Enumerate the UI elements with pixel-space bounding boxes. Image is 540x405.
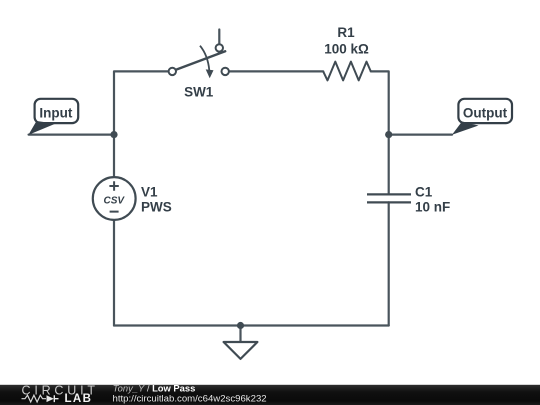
svg-text:10 nF: 10 nF <box>415 200 450 215</box>
wire top-left corner: from switch left contact to left vertical rail <box>114 71 169 176</box>
motion arc <box>200 46 209 71</box>
wire ground stub <box>239 326 241 343</box>
svg-text:C1: C1 <box>415 185 433 200</box>
node input junction <box>110 131 117 138</box>
flag Output <box>452 99 512 135</box>
wire switch right contact to resistor <box>229 70 323 72</box>
svg-text:R1: R1 <box>337 25 355 40</box>
capacitor C1 <box>367 194 411 202</box>
svg-text:V1: V1 <box>141 185 158 200</box>
node ground junction <box>237 322 244 329</box>
wire output node to output flag tail <box>389 134 452 136</box>
svg-text:PWS: PWS <box>141 200 172 215</box>
wire V1 bottom to bottom rail <box>113 220 115 326</box>
wire capacitor bottom to bottom rail <box>388 202 390 325</box>
flag Input <box>28 99 78 135</box>
wire bottom rail <box>114 324 389 326</box>
wire switch top stub <box>218 30 220 45</box>
CircuitLab logo resistor zigzag <box>22 395 47 402</box>
CircuitLab logo diode <box>47 395 54 402</box>
svg-text:Output: Output <box>463 105 508 120</box>
contact top <box>216 44 223 51</box>
contact right <box>222 68 229 75</box>
svg-text:LAB: LAB <box>65 393 93 405</box>
resistor R1 <box>323 62 371 81</box>
svg-text:SW1: SW1 <box>184 84 214 99</box>
ground <box>224 342 258 359</box>
svg-text:Input: Input <box>39 105 72 120</box>
switch SW1 <box>169 44 229 78</box>
wire input tail to left rail node <box>29 134 114 136</box>
contact left <box>169 68 176 75</box>
voltage source V1 <box>93 177 136 220</box>
node output junction <box>385 131 392 138</box>
svg-text:100 kΩ: 100 kΩ <box>324 42 369 57</box>
wire resistor right lead to top-right corner down to capacitor <box>371 71 389 193</box>
lever <box>176 51 225 70</box>
svg-text:http://circuitlab.com/c64w2sc9: http://circuitlab.com/c64w2sc96k232 <box>113 393 267 404</box>
svg-text:CSV: CSV <box>104 196 126 207</box>
arrowhead <box>206 69 214 78</box>
svg-text:Tony_Y / Low Pass: Tony_Y / Low Pass <box>113 383 196 394</box>
